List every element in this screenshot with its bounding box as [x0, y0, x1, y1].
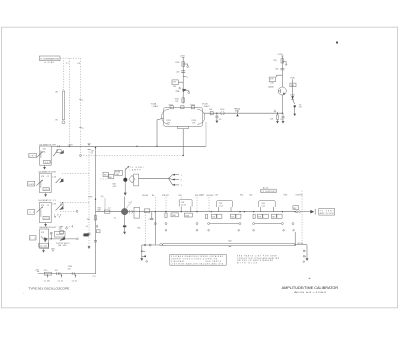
ground stage3 — [44, 223, 47, 227]
svg-text:+150V: +150V — [68, 145, 74, 147]
cap label C44 — [39, 243, 49, 247]
svg-text:.01: .01 — [280, 119, 283, 121]
lamp diamond — [129, 175, 135, 183]
cap C50 — [108, 207, 111, 209]
subtitle date — [294, 291, 328, 294]
note box voltage readings — [170, 254, 226, 265]
transistor Q4 — [41, 236, 48, 242]
wire output y245 — [295, 243, 307, 245]
pot box 50MV ADJ — [28, 181, 35, 186]
label R59 boxed — [184, 213, 192, 217]
label box X10 range — [261, 186, 276, 193]
svg-text:.01: .01 — [90, 153, 93, 155]
branch contact — [282, 62, 287, 65]
test point TP — [88, 196, 96, 200]
cap C134 — [275, 68, 284, 70]
resistor R62 divider — [230, 214, 241, 218]
svg-text:1.5-7: 1.5-7 — [219, 205, 223, 207]
svg-text:F40: F40 — [116, 174, 119, 176]
svg-text:680: 680 — [98, 210, 101, 212]
resistor R50 — [98, 208, 110, 214]
svg-text:1: 1 — [181, 175, 182, 177]
plus mark — [23, 293, 24, 295]
svg-text:(V RANGE): (V RANGE) — [262, 190, 276, 193]
stage 4 title — [39, 226, 57, 229]
lamp DS40 — [123, 178, 127, 182]
pot box .5V ADJ — [28, 210, 35, 215]
stage 3 title — [38, 199, 57, 202]
resistor R151 — [169, 104, 174, 108]
svg-text:C58: C58 — [178, 195, 181, 197]
wire cathode A — [157, 118, 164, 146]
svg-text:2: 2 — [181, 180, 182, 182]
svg-text:CAL. SEL.: CAL. SEL. — [58, 244, 68, 247]
pot R54 — [134, 207, 140, 218]
tick mark x229 — [229, 246, 232, 248]
connector pins J40 — [172, 174, 181, 177]
switch wiper SW150 — [175, 89, 189, 94]
svg-text:C2: C2 — [47, 176, 49, 178]
switch contact SW150a — [183, 64, 188, 68]
label box B40 — [108, 174, 114, 178]
comp C47 — [94, 240, 97, 242]
wire x155 down — [154, 212, 156, 245]
svg-text:3-12: 3-12 — [261, 205, 265, 207]
svg-text:100: 100 — [55, 270, 58, 272]
node +12v — [35, 269, 40, 271]
wire dashed x145 — [137, 212, 145, 244]
wire dashed x302 — [301, 191, 303, 245]
label R155 — [166, 120, 171, 124]
svg-text:47B R57: 47B R57 — [162, 195, 169, 197]
node +225v — [180, 56, 186, 58]
svg-text:+7.6: +7.6 — [92, 276, 96, 278]
wire bus +150v — [58, 145, 207, 147]
svg-text:ILLUMINATION: ILLUMINATION — [41, 58, 61, 61]
trimmer cap C58 — [179, 200, 192, 212]
terminal circle stage4 out — [77, 238, 79, 240]
labels row stage1 — [142, 195, 213, 197]
svg-text:C160: C160 — [220, 109, 224, 111]
cap C30 on bus — [88, 144, 94, 155]
resistor R49 — [87, 216, 97, 221]
transistor Q50 — [121, 197, 127, 232]
tiny box T39 — [60, 231, 64, 234]
cap C151 — [176, 71, 185, 74]
triode A arc — [162, 109, 169, 124]
cap C162 to ground — [215, 113, 221, 124]
variable cap V3 — [52, 203, 63, 218]
diode D136 — [290, 94, 294, 99]
svg-text:SQ .001: SQ .001 — [39, 246, 47, 248]
svg-text:.01: .01 — [219, 119, 222, 121]
svg-text:TYPE 561 OSCILLOSCOPE: TYPE 561 OSCILLOSCOPE — [28, 286, 69, 290]
label R156 — [192, 120, 197, 124]
pot R47 output — [55, 231, 66, 240]
wire dashed stub stage2 — [62, 173, 89, 175]
svg-text:1.7: 1.7 — [66, 63, 69, 65]
svg-text:C64: C64 — [249, 194, 252, 196]
svg-text:C39: C39 — [60, 226, 63, 228]
label box SW — [100, 172, 109, 179]
switch contact SW150b — [179, 87, 181, 89]
connector circle left — [160, 244, 162, 246]
svg-text:D136: D136 — [290, 94, 294, 96]
node tick B — [79, 128, 83, 131]
terminal branch right — [303, 245, 309, 263]
fuse F40 — [115, 170, 123, 176]
label V150A — [151, 103, 159, 108]
transformer T40 — [134, 174, 139, 186]
svg-text:3: 3 — [181, 185, 182, 187]
cap C49 top right — [59, 227, 68, 231]
svg-text:R76 56: R76 56 — [297, 243, 303, 245]
junction dots main — [155, 211, 296, 212]
coupling cap C54 — [129, 210, 133, 213]
svg-text:680: 680 — [109, 177, 112, 179]
cap C52 — [113, 218, 126, 228]
resistor R55 — [144, 209, 151, 221]
resistor R134 — [273, 59, 283, 63]
trimmer cap C66 — [259, 201, 276, 212]
svg-text:LIST FOR EARLIER VALUES AND S/: LIST FOR EARLIER VALUES AND S/N — [171, 263, 224, 266]
svg-text:225: 225 — [68, 269, 71, 271]
coupling cap C160 — [220, 109, 224, 115]
svg-text:CALIBRATOR .5 V: CALIBRATOR .5 V — [38, 199, 57, 202]
connector pair C68 — [293, 206, 310, 213]
svg-text:Q135: Q135 — [268, 87, 274, 89]
node 17 — [274, 110, 276, 112]
label box GRATICULE ILLUM — [40, 56, 61, 64]
svg-text:.001: .001 — [290, 85, 294, 87]
svg-text:B9: B9 — [56, 120, 58, 122]
resistor R31 with adjust arrow — [36, 206, 43, 217]
pot box 5MV ADJ — [29, 153, 37, 157]
resistor R150 — [175, 62, 184, 66]
wire grid x105 — [101, 196, 105, 210]
cap C24 label — [43, 188, 49, 192]
svg-text:6.8: 6.8 — [78, 63, 81, 65]
svg-text:+A+: +A+ — [308, 277, 311, 280]
svg-text:137: 137 — [299, 107, 302, 109]
resistor R302 — [55, 270, 60, 275]
delay line DL60 — [163, 240, 295, 245]
svg-text:50MV: 50MV — [28, 184, 35, 186]
wire dashed top — [60, 57, 81, 59]
svg-text:to DIAG: to DIAG — [44, 61, 55, 64]
svg-text:x: x — [187, 77, 188, 79]
resistor R162 — [209, 109, 213, 115]
wire input y245 — [142, 244, 160, 246]
cap C55 to row — [150, 212, 153, 220]
spare gate dot — [336, 41, 338, 43]
variable cap V1 — [53, 150, 64, 157]
resistor R1 with adjust arrow — [37, 151, 43, 159]
wire riser x206 — [205, 122, 207, 146]
svg-text:.01: .01 — [113, 218, 116, 220]
resistor R138 — [270, 113, 279, 124]
svg-text:C2 .01: C2 .01 — [58, 280, 63, 282]
cap C34 label — [43, 217, 49, 221]
switch wafer row B — [165, 230, 294, 232]
svg-text:.01: .01 — [148, 219, 151, 221]
pot box 1V ADJ — [29, 236, 36, 241]
wire vertical x95.5 — [95, 147, 96, 274]
svg-text:17: 17 — [274, 110, 276, 112]
node +225v right — [277, 54, 283, 56]
cap C138 — [280, 113, 285, 123]
resistor R154 — [178, 126, 189, 128]
svg-text:R66: R66 — [284, 194, 287, 196]
svg-text:A9: A9 — [56, 91, 58, 94]
svg-text:AMP SCOPE: AMP SCOPE — [320, 212, 335, 215]
note text right — [237, 254, 280, 264]
svg-text:C1 .001: C1 .001 — [44, 280, 50, 282]
wire to connectors — [139, 175, 173, 185]
cap C302 — [58, 275, 63, 283]
label box TO VERT AMP — [319, 209, 335, 216]
resistor R61 divider — [205, 214, 222, 219]
svg-text:.001: .001 — [44, 162, 50, 164]
trimmer cap C62 — [217, 201, 233, 212]
stage 3 box — [40, 202, 52, 222]
terminal branch left — [140, 245, 147, 262]
svg-text:100: 100 — [59, 229, 62, 231]
svg-text:SW: SW — [104, 175, 107, 177]
ground Q50 — [123, 232, 126, 235]
svg-text:.001: .001 — [44, 218, 49, 220]
svg-text:TP28: TP28 — [88, 196, 92, 198]
svg-text:AUG 64 +1964: AUG 64 +1964 — [294, 291, 328, 294]
wire dashed x80 — [78, 58, 81, 154]
svg-text:4.5-25: 4.5-25 — [181, 205, 186, 207]
cap C48 — [85, 225, 100, 233]
resistor R149 boxed — [172, 80, 183, 88]
variable cap V2 — [52, 176, 63, 183]
labels row stage3 — [284, 194, 303, 196]
svg-text:8: 8 — [82, 128, 83, 130]
resistor R153 — [190, 104, 194, 108]
svg-text:.001: .001 — [176, 71, 180, 73]
revision mark — [308, 277, 311, 280]
label 6.3v — [113, 184, 117, 188]
wire dashed x89 — [88, 149, 90, 246]
label SEL — [60, 201, 65, 206]
node +7.6 — [92, 276, 96, 278]
svg-text:C3 .01: C3 .01 — [72, 280, 77, 282]
svg-text:TO VERT: TO VERT — [320, 210, 335, 212]
svg-text:C3: C3 — [47, 205, 49, 207]
label C39 — [60, 225, 73, 228]
wire anode — [204, 112, 283, 114]
wire chain — [182, 58, 184, 104]
transistor Q135 — [268, 87, 286, 95]
svg-text:.01: .01 — [85, 226, 88, 228]
tube envelope box — [164, 108, 203, 127]
caption TYPE OSCILLOSCOPE — [28, 286, 69, 290]
svg-text:2.2: 2.2 — [108, 207, 111, 209]
svg-text:C60 R60: C60 R60 — [206, 195, 213, 197]
stage 4 box — [40, 229, 49, 249]
tunnel diode TD137 — [293, 99, 302, 116]
cap C14 label — [43, 160, 50, 163]
label GND — [51, 249, 56, 253]
svg-text:R151: R151 — [169, 104, 173, 106]
cap C301 — [44, 275, 50, 283]
ground stage1 — [43, 165, 46, 169]
test point TP50 leader — [127, 202, 132, 208]
jack CAL OUT — [84, 233, 89, 236]
stage 2 box — [40, 173, 52, 192]
wire power strip — [38, 273, 96, 275]
resistor R70 divider — [271, 214, 282, 218]
svg-text:.5 V: .5 V — [28, 212, 35, 214]
svg-text:R153: R153 — [190, 104, 194, 106]
wire dashed x69 — [66, 58, 70, 146]
ground stage2 — [44, 193, 47, 197]
label V150B — [202, 104, 210, 108]
wire lamp vertical — [124, 169, 126, 193]
svg-text:4: 4 — [82, 100, 83, 102]
wire dashed x63 — [63, 61, 65, 91]
labels row stage2 — [201, 194, 252, 196]
svg-text:750: 750 — [212, 217, 215, 219]
resistor R66 divider — [253, 214, 268, 219]
stub dotted s1 — [155, 197, 209, 211]
wire main line — [96, 211, 296, 213]
resistor R152 — [181, 106, 184, 109]
svg-text:SEL: SEL — [137, 228, 140, 230]
wire collector — [281, 56, 283, 87]
svg-text:R62: R62 — [240, 194, 243, 196]
title AMPLITUDE/TIME CALIBRATOR — [282, 286, 339, 290]
svg-text:.001: .001 — [275, 69, 279, 71]
wire output stage4 — [49, 238, 77, 239]
cap C45 — [50, 232, 53, 239]
cap C136 boxed — [290, 83, 296, 87]
svg-text:1W: 1W — [175, 101, 178, 103]
test point TP164 — [235, 108, 241, 116]
label R136 — [290, 78, 294, 99]
label output mult — [56, 243, 70, 247]
svg-text:75K: 75K — [175, 91, 179, 93]
wire tail center — [183, 129, 184, 157]
ground x89 — [88, 246, 91, 249]
wire dashed stub stage3 — [62, 202, 89, 204]
triode B arc — [197, 109, 204, 124]
svg-text:+: + — [23, 293, 24, 295]
stage 2 title — [38, 171, 57, 174]
stage 1 title — [39, 143, 57, 146]
svg-text:750: 750 — [231, 217, 234, 219]
switch wafer row A — [154, 223, 294, 225]
cap C37 — [83, 233, 91, 237]
resistor R57 — [165, 211, 179, 218]
ground lamp — [124, 193, 127, 196]
wire emitter down — [282, 95, 283, 114]
stage 1 box — [40, 146, 52, 165]
svg-text:750: 750 — [258, 217, 261, 219]
svg-text:.001: .001 — [44, 189, 49, 191]
wire x295 down — [295, 232, 296, 245]
svg-text:B1: B1 — [43, 152, 45, 154]
svg-text:LAMPS: LAMPS — [130, 169, 142, 172]
resistor R21 with adjust arrow — [36, 180, 43, 188]
resistor R148 — [175, 98, 185, 103]
svg-text:R54 84: R54 84 — [142, 195, 148, 197]
arrow to grat lamps — [125, 166, 144, 172]
resistor R301 — [44, 270, 52, 275]
node tick — [183, 76, 188, 78]
svg-text:R61: R61 — [201, 194, 204, 196]
lamp B9 — [56, 91, 66, 124]
resistor R132 boxed — [269, 75, 282, 84]
svg-text:C68 R70: C68 R70 — [295, 194, 302, 196]
wire dashed out — [60, 210, 78, 212]
ground stage4 — [42, 249, 45, 253]
wire dashed bus lower — [80, 155, 184, 157]
label +225v feed — [68, 266, 75, 275]
wire bus stub stage1 — [51, 145, 59, 147]
svg-text:AMPLITUDE/TIME CALIBRATOR: AMPLITUDE/TIME CALIBRATOR — [282, 286, 339, 290]
output arrow to vert amp — [310, 209, 315, 215]
cap C303 — [72, 275, 77, 283]
svg-text:B4: B4 — [152, 195, 154, 197]
svg-text:C62: C62 — [215, 194, 218, 196]
node tick A — [79, 100, 83, 103]
